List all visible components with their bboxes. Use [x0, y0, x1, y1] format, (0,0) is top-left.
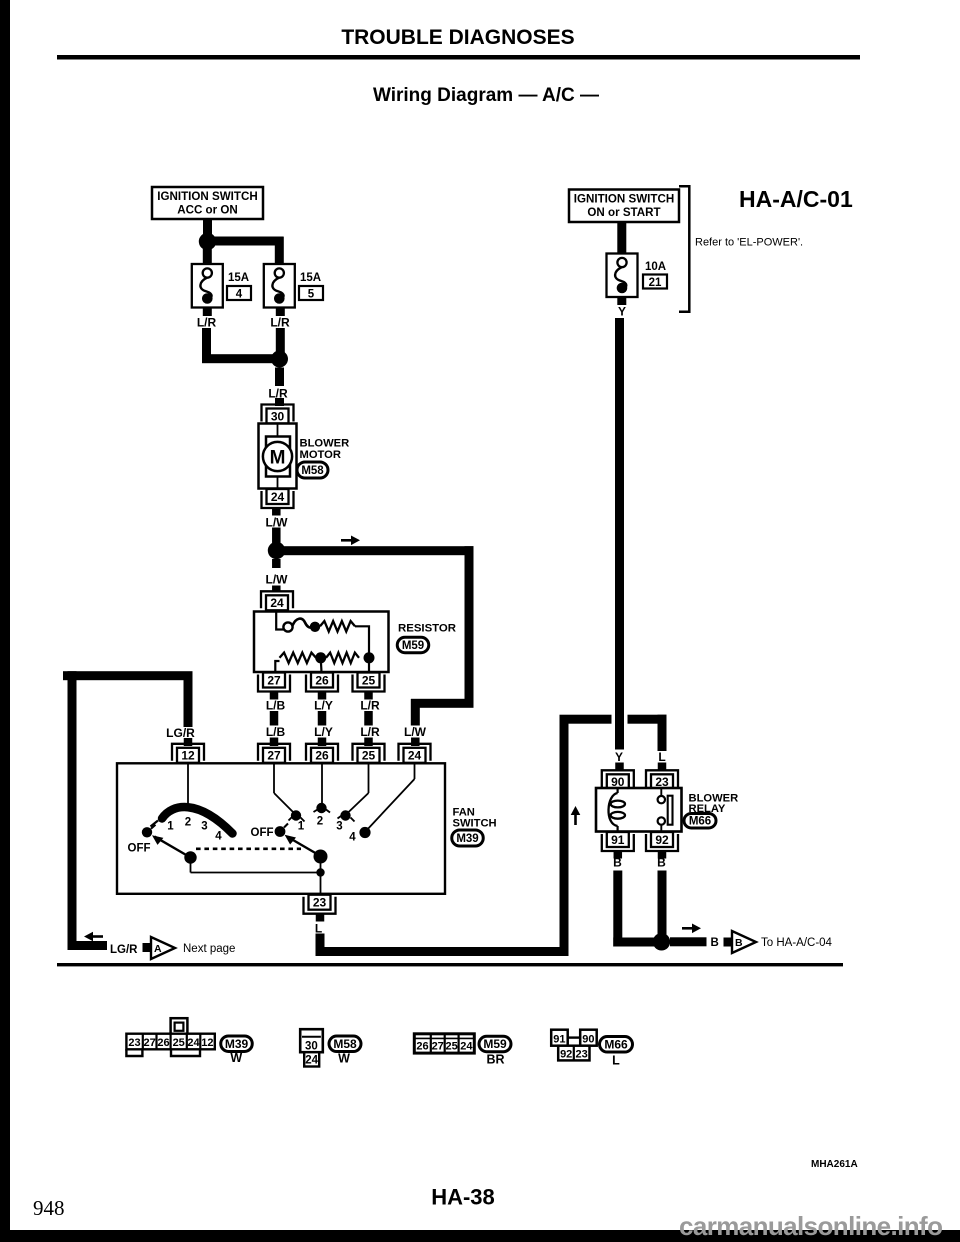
fan switch internal wire pin24 to contact 4 [414, 763, 416, 779]
svg-text:27: 27 [267, 673, 281, 687]
fuse 21 10A [607, 254, 638, 298]
diagram bottom separator rule [57, 963, 843, 966]
svg-text:M58: M58 [301, 465, 324, 477]
svg-text:M: M [270, 448, 286, 469]
svg-text:HA-38: HA-38 [431, 1185, 495, 1210]
resistor connector oval M59 [397, 637, 429, 653]
svg-text:Y: Y [615, 750, 623, 764]
svg-text:12: 12 [181, 749, 195, 763]
node B junction [653, 933, 670, 950]
svg-text:3: 3 [201, 821, 207, 833]
wire stub under resistor pin 27 [270, 692, 279, 700]
svg-text:B: B [735, 937, 743, 949]
svg-text:BR: BR [486, 1052, 504, 1066]
wire stub under fuse 21 [617, 297, 626, 305]
wire bus L to blower relay [316, 947, 569, 956]
fan switch connector pin 24 [404, 748, 426, 763]
fan switch right contact 3 [340, 810, 350, 820]
svg-text:W: W [338, 1052, 350, 1066]
fan switch internal wire pin27 to contact 1 [273, 763, 275, 793]
wire fuse4 elbow to node [202, 328, 211, 363]
svg-text:L: L [612, 1053, 620, 1067]
svg-text:26: 26 [315, 749, 329, 763]
svg-text:24: 24 [460, 1041, 473, 1053]
fan switch mechanical link dashed line [196, 847, 301, 850]
fan switch internal wire pin25 to contact 3 [368, 763, 370, 793]
blower motor connector pin 30 [267, 409, 289, 424]
svg-text:27: 27 [143, 1037, 155, 1049]
svg-text:LG/R: LG/R [110, 944, 138, 956]
svg-text:M59: M59 [483, 1037, 507, 1051]
fan switch right wiper arm [287, 837, 321, 857]
svg-text:L/R: L/R [197, 316, 217, 330]
wire stub under resistor pin 25 [364, 692, 373, 700]
reference bracket EL-POWER [679, 186, 689, 311]
svg-text:LG/R: LG/R [166, 726, 195, 740]
wire 27 between labels [270, 711, 279, 726]
wire from ignition switch to node [203, 219, 212, 236]
wire 25 between labels [364, 711, 373, 726]
svg-text:90: 90 [582, 1033, 594, 1045]
blower relay contact [660, 788, 662, 796]
fan switch connector oval M39 [452, 830, 484, 846]
fan switch internal wire pin26 to contact 2 [321, 763, 323, 806]
wire stub L into pin 23 [658, 763, 667, 772]
svg-text:Y: Y [618, 305, 626, 319]
svg-text:91: 91 [553, 1033, 565, 1045]
svg-text:M66: M66 [689, 816, 711, 828]
svg-text:L/W: L/W [404, 725, 427, 739]
svg-text:30: 30 [271, 409, 285, 423]
svg-text:Refer to 'EL-POWER'.: Refer to 'EL-POWER'. [695, 237, 803, 249]
svg-text:15A: 15A [300, 272, 321, 284]
power source IGNITION SWITCH ON or START [569, 190, 679, 223]
svg-text:MHA261A: MHA261A [811, 1159, 858, 1170]
svg-text:24: 24 [270, 596, 284, 610]
svg-text:L/W: L/W [266, 573, 289, 587]
node L/W junction [268, 542, 285, 559]
svg-text:L: L [658, 750, 665, 764]
fuse 21 connector box 21 [643, 275, 667, 289]
wire stub under resistor pin 26 [318, 692, 327, 700]
svg-text:ACC or ON: ACC or ON [177, 204, 238, 217]
svg-text:W: W [230, 1051, 242, 1065]
resistor internal lower elements [275, 661, 279, 672]
arrow up on relay feed wire [574, 813, 577, 825]
svg-text:To HA-A/C-04: To HA-A/C-04 [761, 937, 833, 949]
svg-text:92: 92 [655, 833, 669, 847]
svg-text:A: A [154, 943, 162, 955]
wire branch to fuse 5 [207, 237, 284, 246]
arrow on L/W wire [341, 539, 353, 542]
svg-text:1: 1 [298, 821, 305, 833]
blower relay coil [616, 788, 618, 793]
blower motor M58 body [259, 424, 297, 489]
svg-text:L/R: L/R [270, 316, 290, 330]
fan switch connector pin 12 [177, 748, 199, 763]
svg-text:92: 92 [560, 1049, 572, 1061]
fan switch connector pin 26 [311, 748, 333, 763]
blower relay connector pin 23 [651, 774, 673, 789]
svg-text:B: B [657, 856, 666, 870]
resistor internal thermal fuse and element [276, 612, 283, 630]
wire stub to connector 30 [275, 398, 284, 406]
svg-text:24: 24 [187, 1037, 200, 1049]
svg-text:3: 3 [336, 821, 342, 833]
svg-text:948: 948 [33, 1196, 65, 1220]
svg-text:M58: M58 [333, 1037, 357, 1051]
svg-text:M39: M39 [225, 1037, 249, 1051]
svg-text:L/B: L/B [266, 725, 286, 739]
wire stub under fuse 4 [203, 308, 212, 317]
svg-text:L/W: L/W [266, 516, 289, 530]
fan switch left wiper arm [155, 837, 191, 858]
fuse 5 15A [264, 264, 295, 308]
blower relay connector oval M66 [684, 813, 716, 828]
svg-text:2: 2 [317, 816, 323, 828]
svg-text:25: 25 [362, 749, 376, 763]
arrow on B wire [682, 927, 694, 930]
svg-text:26: 26 [416, 1041, 428, 1053]
svg-text:4: 4 [349, 832, 356, 844]
svg-text:25: 25 [445, 1041, 457, 1053]
connector face oval M59 [479, 1036, 511, 1052]
wire pin 92 to node [658, 871, 667, 936]
svg-text:OFF: OFF [251, 827, 274, 839]
svg-text:L/Y: L/Y [314, 699, 333, 713]
fan switch common node [320, 857, 322, 894]
fuse 4 connector box 4 [227, 286, 251, 300]
fan switch pin12 internal wire [187, 763, 189, 806]
svg-text:91: 91 [611, 833, 625, 847]
wire Y long run to relay [615, 318, 624, 750]
wire thick L/W to fan switch pin 24 with arrow [277, 546, 474, 555]
wire stubs into fan switch pins [270, 738, 279, 747]
header rule [57, 55, 860, 60]
blower relay connector pin 91 [607, 832, 629, 847]
resistor connector pin 26 [311, 673, 333, 688]
connector face view M66 [551, 1030, 568, 1046]
wire pin 91 to node [613, 871, 622, 947]
wire stub to resistor pin 24 [272, 559, 281, 568]
svg-text:RESISTOR: RESISTOR [398, 623, 456, 635]
resistor connector pin 25 [358, 673, 380, 688]
connector face view M59 [414, 1034, 474, 1053]
svg-text:1: 1 [167, 821, 174, 833]
wire fuse5 down to node [276, 328, 285, 356]
fan switch right contact 2 [316, 803, 326, 813]
wire stub under fuse 5 [276, 308, 285, 317]
svg-text:L/B: L/B [266, 699, 286, 713]
svg-text:Wiring Diagram — A/C —: Wiring Diagram — A/C — [373, 85, 599, 106]
svg-text:Next page: Next page [183, 943, 235, 955]
fan switch connector pin 25 [358, 748, 380, 763]
svg-text:23: 23 [128, 1037, 140, 1049]
svg-text:25: 25 [362, 673, 376, 687]
svg-text:B: B [711, 937, 719, 949]
svg-text:27: 27 [267, 749, 281, 763]
svg-text:L: L [315, 922, 322, 936]
fuse 5 connector box 5 [299, 286, 323, 300]
svg-text:25: 25 [173, 1037, 185, 1049]
wire node to blower motor [275, 368, 284, 387]
svg-text:ON or START: ON or START [587, 206, 660, 219]
fuse 4 15A [192, 264, 223, 308]
wire ignition to fuse 21 [617, 222, 626, 253]
svg-text:23: 23 [313, 896, 327, 910]
blower relay M66 body [596, 788, 682, 832]
blower motor connector oval M58 [297, 462, 328, 478]
blower relay connector pin 92 [651, 832, 673, 847]
svg-text:MOTOR: MOTOR [300, 449, 341, 461]
svg-text:L/R: L/R [360, 699, 380, 713]
svg-text:M39: M39 [456, 833, 478, 845]
svg-text:IGNITION SWITCH: IGNITION SWITCH [157, 190, 257, 203]
svg-text:26: 26 [315, 673, 329, 687]
wire stub under pin 23 [316, 914, 325, 922]
svg-text:L/Y: L/Y [314, 725, 333, 739]
wire stub under pin 91 [614, 852, 623, 859]
arrow to next page [91, 935, 103, 938]
resistor connector pin 27 [263, 673, 285, 688]
fan switch left arm to common wire [190, 858, 192, 873]
resistor M59 body [254, 612, 389, 673]
connector face oval M66 [600, 1037, 633, 1053]
svg-text:10A: 10A [645, 261, 666, 273]
fan switch left OFF contact [142, 827, 152, 837]
fan switch connector pin 27 [263, 748, 285, 763]
resistor connector pin 24 [266, 595, 288, 610]
svg-text:24: 24 [408, 749, 422, 763]
wire stub under pin 92 [658, 852, 667, 859]
svg-text:23: 23 [575, 1049, 587, 1061]
svg-text:27: 27 [432, 1041, 444, 1053]
svg-text:2: 2 [185, 817, 191, 829]
fan switch left rotary track [162, 807, 233, 833]
wire B continues right [670, 937, 707, 946]
svg-text:21: 21 [649, 277, 662, 289]
svg-text:4: 4 [236, 288, 243, 300]
svg-text:HA-A/C-01: HA-A/C-01 [739, 186, 853, 212]
wire stub under motor [272, 508, 281, 516]
svg-text:24: 24 [271, 490, 285, 504]
power source IGNITION SWITCH ACC or ON [152, 187, 263, 219]
svg-text:24: 24 [305, 1055, 318, 1067]
blower relay connector pin 90 [607, 774, 629, 789]
wire LG/R from fan switch pin 12 to next page [184, 680, 193, 727]
svg-text:30: 30 [305, 1041, 318, 1053]
connector face oval M39 [221, 1036, 253, 1052]
svg-text:L/R: L/R [360, 725, 380, 739]
wire 26 between labels [318, 711, 327, 726]
fan switch right contact 1 [291, 810, 301, 820]
svg-text:4: 4 [215, 831, 222, 843]
fan switch M39 body [117, 763, 445, 894]
svg-text:IGNITION SWITCH: IGNITION SWITCH [574, 193, 674, 206]
svg-text:5: 5 [308, 288, 315, 300]
connector face view M39 [171, 1018, 188, 1034]
node under ignition switch ACC [199, 233, 216, 250]
fan switch right contact 4 [359, 827, 370, 838]
svg-text:BLOWER: BLOWER [300, 438, 350, 450]
blower motor connector pin 24 [267, 489, 289, 504]
svg-text:M59: M59 [402, 640, 424, 652]
svg-text:26: 26 [157, 1037, 169, 1049]
svg-text:M66: M66 [604, 1037, 628, 1051]
wire to L/W node [272, 528, 281, 544]
wire node to fuse 4 [203, 248, 212, 264]
svg-text:SWITCH: SWITCH [453, 817, 497, 829]
node joining fused feeds [271, 351, 288, 368]
fan switch right OFF contact [275, 826, 286, 837]
svg-text:OFF: OFF [128, 843, 151, 855]
fan switch connector pin 23 [309, 895, 331, 910]
connector face view M58 [300, 1029, 323, 1052]
svg-text:12: 12 [201, 1037, 213, 1049]
wire L to bus [316, 934, 325, 956]
wire stub Y into pin 90 [615, 763, 624, 772]
svg-text:15A: 15A [228, 272, 249, 284]
svg-text:TROUBLE DIAGNOSES: TROUBLE DIAGNOSES [341, 26, 574, 49]
svg-text:B: B [613, 856, 622, 870]
connector face oval M58 [329, 1036, 361, 1052]
